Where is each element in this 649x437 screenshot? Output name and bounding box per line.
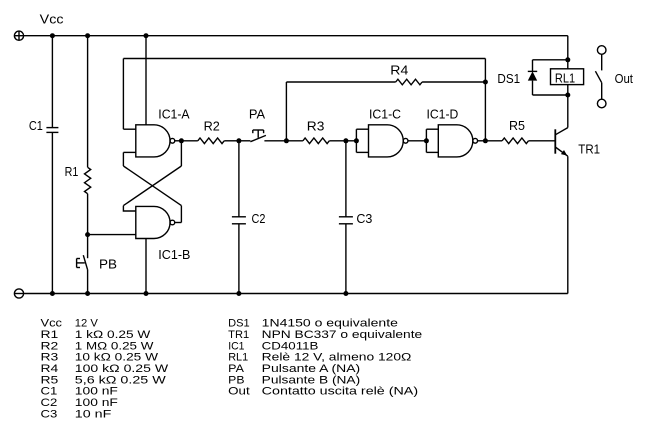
svg-text:R1: R1 xyxy=(41,329,59,341)
bubble IC1-B xyxy=(170,220,175,225)
wire R1 to PB junction xyxy=(87,194,89,259)
wire C1 branch lower xyxy=(51,132,53,293)
node bottom rail x238 xyxy=(236,291,241,296)
wire IC power stub top xyxy=(145,36,147,125)
svg-text:TR1: TR1 xyxy=(578,142,600,157)
svg-text:C3: C3 xyxy=(41,408,58,420)
svg-text:100 nF: 100 nF xyxy=(75,386,118,398)
svg-text:1N4150 o equivalente: 1N4150 o equivalente xyxy=(262,318,398,330)
node bottom rail x345 xyxy=(343,291,348,296)
svg-text:R1: R1 xyxy=(65,164,79,179)
wire B-out up xyxy=(180,206,182,223)
wire PA right xyxy=(264,140,286,142)
wire DS1/RL1 top bar xyxy=(533,59,568,61)
svg-text:5,6 kΩ 0.25 W: 5,6 kΩ 0.25 W xyxy=(75,374,167,386)
svg-text:100 kΩ 0.25 W: 100 kΩ 0.25 W xyxy=(75,363,169,375)
wire bottom rail xyxy=(24,293,568,295)
node bottom rail x87 xyxy=(85,291,90,296)
wire R2 left xyxy=(181,140,197,142)
svg-text:100 nF: 100 nF xyxy=(75,397,118,409)
svg-text:R2: R2 xyxy=(204,118,220,133)
svg-text:Out: Out xyxy=(228,386,250,398)
wire R4 left xyxy=(286,81,395,83)
wire IC1-A output xyxy=(175,140,182,142)
wire R5 left xyxy=(485,140,502,142)
resistor R5 xyxy=(502,138,528,144)
svg-text:RL1: RL1 xyxy=(228,352,248,364)
diode DS1 xyxy=(528,60,537,95)
wire R4 right xyxy=(422,81,485,83)
wire junction to IC1-B input xyxy=(88,234,136,236)
svg-text:Relè 12 V, almeno 120Ω: Relè 12 V, almeno 120Ω xyxy=(262,352,412,364)
node IC1-C input xyxy=(354,138,359,143)
svg-text:IC1-B: IC1-B xyxy=(158,247,190,262)
pushbutton PA xyxy=(250,130,266,142)
wire to A bottom input xyxy=(122,152,124,166)
terminal - (0V) xyxy=(14,289,23,298)
svg-text:Contatto uscita relè (NA): Contatto uscita relè (NA) xyxy=(262,386,418,398)
svg-text:R2: R2 xyxy=(41,340,59,352)
resistor R3 xyxy=(303,138,329,144)
wire cross-couple A-out down xyxy=(180,141,182,166)
capacitor C3 xyxy=(339,217,353,224)
node R2/C2/PA xyxy=(236,138,241,143)
node IC1-D input xyxy=(424,138,429,143)
wire diagonal A-out to B-in xyxy=(123,166,181,206)
resistor R1 xyxy=(85,167,91,193)
wire IC1-A input stubs xyxy=(123,128,135,130)
svg-text:PA: PA xyxy=(249,106,266,121)
svg-text:10 nF: 10 nF xyxy=(75,408,112,420)
wire R3 left xyxy=(286,140,303,142)
nand gate IC1-B body xyxy=(136,206,170,238)
node bottom rail x146 xyxy=(144,291,149,296)
node top rail x52 xyxy=(50,33,55,38)
wire IC1-D output xyxy=(478,140,486,142)
svg-text:R5: R5 xyxy=(41,374,59,386)
svg-text:PB: PB xyxy=(99,257,117,272)
svg-text:C3: C3 xyxy=(356,211,372,226)
node R1/PB/IC1-B xyxy=(85,232,90,237)
wire IC1-B output xyxy=(175,222,182,224)
component table xyxy=(41,318,423,421)
resistor R4 xyxy=(396,79,422,85)
bubble IC1-D xyxy=(473,138,478,143)
node PA/R4/R3 xyxy=(284,138,289,143)
node top rail x146 xyxy=(144,33,149,38)
wire DS1/RL1 bottom bar xyxy=(533,94,568,96)
svg-text:1 MΩ 0.25 W: 1 MΩ 0.25 W xyxy=(75,340,154,352)
wire R2 right xyxy=(224,140,239,142)
svg-text:Vcc: Vcc xyxy=(41,318,63,330)
wire R5 right / base xyxy=(529,140,556,142)
transistor TR1 xyxy=(555,128,568,157)
wire top rail xyxy=(24,35,568,37)
wire C2 branch lower xyxy=(238,224,240,294)
svg-text:C2: C2 xyxy=(252,211,266,226)
wire emitter down xyxy=(567,156,569,293)
wire PA left xyxy=(239,140,251,142)
wire PB to bottom rail xyxy=(87,269,89,293)
svg-text:1 kΩ 0.25 W: 1 kΩ 0.25 W xyxy=(75,329,151,341)
pushbutton PB xyxy=(77,255,88,269)
wire feedback right vertical xyxy=(484,59,486,141)
svg-text:R4: R4 xyxy=(41,363,59,375)
svg-text:Out: Out xyxy=(615,71,634,86)
relay RL1 box xyxy=(551,60,584,95)
svg-text:TR1: TR1 xyxy=(228,329,249,341)
svg-text:C1: C1 xyxy=(41,386,58,398)
svg-text:R3: R3 xyxy=(307,119,325,134)
wire C3 branch lower xyxy=(345,224,347,294)
resistor R2 xyxy=(198,138,224,144)
svg-text:IC1-D: IC1-D xyxy=(427,106,459,121)
svg-text:C1: C1 xyxy=(29,118,43,133)
node R3/C3 xyxy=(343,138,348,143)
nand gate IC1-A body xyxy=(136,125,170,157)
wire feedback left vertical xyxy=(122,59,124,130)
svg-text:DS1: DS1 xyxy=(228,318,250,330)
svg-text:12 V: 12 V xyxy=(75,318,99,330)
capacitor C1 xyxy=(46,128,58,133)
node bottom rail x52 xyxy=(50,291,55,296)
capacitor C2 xyxy=(232,217,246,224)
svg-text:R3: R3 xyxy=(41,352,59,364)
svg-text:IC1-A: IC1-A xyxy=(158,106,190,121)
svg-text:PA: PA xyxy=(228,363,244,375)
node IC1-D output xyxy=(483,138,488,143)
wire collector up xyxy=(567,95,569,128)
svg-text:10 kΩ 0.25 W: 10 kΩ 0.25 W xyxy=(75,352,159,364)
svg-text:Pulsante B (NA): Pulsante B (NA) xyxy=(262,374,361,386)
svg-text:DS1: DS1 xyxy=(497,71,520,86)
wire IC power stub bottom xyxy=(145,239,147,294)
nand gate IC1-D body xyxy=(438,125,473,157)
wire C3 branch upper xyxy=(345,141,347,217)
node RL1 top xyxy=(565,57,570,62)
wire feedback top xyxy=(123,58,485,60)
wire R4 branch vertical xyxy=(285,82,287,141)
wire IC1-C output xyxy=(408,140,426,142)
node R4 right xyxy=(483,80,488,85)
wire top rail corner down xyxy=(567,36,569,60)
svg-text:CD4011B: CD4011B xyxy=(262,340,319,352)
node top rail x87 xyxy=(85,33,90,38)
svg-text:Pulsante A (NA): Pulsante A (NA) xyxy=(262,363,361,375)
node IC1-A output xyxy=(179,138,184,143)
switch Out xyxy=(595,46,606,108)
wire IC1-C input tie xyxy=(356,129,368,152)
wire diagonal B-out to A-in xyxy=(123,166,181,206)
bubble IC1-C xyxy=(403,138,408,143)
wire R3 right xyxy=(329,140,356,142)
svg-text:NPN BC337 o equivalente: NPN BC337 o equivalente xyxy=(262,329,423,341)
wire C1 branch upper xyxy=(51,36,53,127)
svg-text:RL1: RL1 xyxy=(555,71,575,86)
svg-text:R4: R4 xyxy=(390,62,408,77)
nand gate IC1-C body xyxy=(369,125,404,157)
wire to B top input xyxy=(123,206,135,211)
svg-text:R5: R5 xyxy=(509,118,525,133)
node RL1 bottom xyxy=(565,93,570,98)
bubble IC1-A xyxy=(170,138,175,143)
svg-text:IC1: IC1 xyxy=(228,340,244,352)
svg-text:IC1-C: IC1-C xyxy=(369,106,401,121)
wire C2 branch upper xyxy=(238,141,240,217)
svg-text:PB: PB xyxy=(228,374,244,386)
wire IC1-D input tie xyxy=(426,129,438,152)
wire R1 branch upper xyxy=(87,36,89,168)
svg-text:Vcc: Vcc xyxy=(40,12,64,27)
terminal + (Vcc) xyxy=(14,31,23,40)
svg-text:C2: C2 xyxy=(41,397,58,409)
